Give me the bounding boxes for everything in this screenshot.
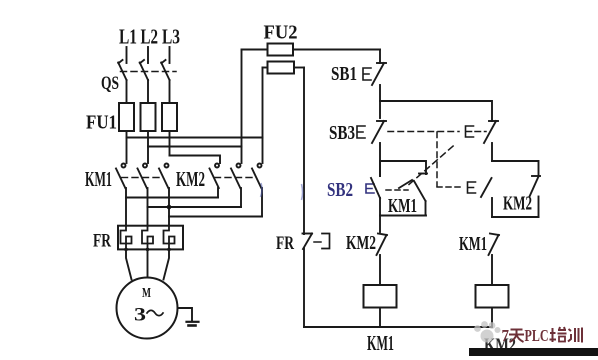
logo paw icon: [474, 321, 500, 342]
contactor KM1 interlock NC contact: [489, 234, 500, 286]
relay FR heater 2: [142, 226, 153, 250]
logo text 7 PLC: [502, 326, 549, 345]
motor M circle: [117, 278, 178, 339]
fuse FU2a: [242, 44, 381, 56]
svg-text:L3: L3: [162, 25, 180, 49]
button SB3 NO contact in branch 2: [481, 178, 492, 217]
wire FU2b tap down to KM2 right contact: [262, 68, 264, 164]
wire bus phase1 to KM2 right: [127, 137, 263, 139]
button SB3 NC contact: [372, 121, 386, 176]
switch QS pole 2: [140, 60, 148, 103]
linkage crossing diagonal dashed: [409, 144, 456, 185]
svg-text:KM2: KM2: [346, 232, 376, 254]
wire L2 drop: [147, 47, 149, 63]
logo glyph tian: [509, 330, 524, 343]
wire FR to motor W: [164, 249, 170, 279]
wire KM1 c1 down to FR: [125, 198, 127, 226]
linkage row2 dashed: [437, 186, 461, 188]
relay FR heater 3: [164, 226, 175, 250]
node FR out dot 2: [146, 248, 150, 252]
svg-text:SB2: SB2: [327, 179, 353, 201]
ground wire: [178, 308, 193, 322]
node FR out dot 3: [167, 248, 171, 252]
svg-text:FR: FR: [276, 233, 294, 254]
wire control return left: [303, 68, 305, 235]
svg-text:PLC: PLC: [525, 326, 549, 345]
svg-text:FU2: FU2: [264, 23, 298, 44]
fuse FU2b: [263, 62, 305, 74]
contactor KM2 interlock NC contact: [377, 234, 388, 286]
linkage row1 E symbol: [466, 126, 474, 137]
switch QS pole 1: [118, 60, 126, 103]
relay FR box: [118, 226, 183, 250]
contactor KM1 main contact 2: [138, 164, 148, 208]
svg-text:3: 3: [134, 305, 146, 326]
contactor KM1 linkage dashes: [122, 177, 164, 179]
wire bottom bus: [304, 326, 492, 328]
button SB2 NC contact in branch 2: [484, 121, 498, 161]
logo glyph xun: [568, 328, 582, 343]
linkage SB2 dashed to right: [386, 189, 408, 191]
linkage SB3 dashed row: [388, 131, 459, 133]
button SB2 NO contact: [371, 161, 380, 232]
contactor KM1 holding box: [380, 161, 427, 216]
svg-text:FU1: FU1: [86, 113, 117, 134]
svg-text:KM1: KM1: [85, 167, 112, 191]
svg-text:KM1: KM1: [367, 331, 394, 355]
svg-text:L2: L2: [141, 25, 159, 49]
wire L1 drop: [126, 47, 128, 63]
contactor KM1 main contact 1: [116, 164, 126, 198]
coil KM1: [364, 285, 397, 327]
contactor KM2 main contact 3: [252, 164, 262, 217]
wire FU2a tap down to KM2 mid contact: [241, 50, 243, 164]
wire H2 joins KM1 c2 and KM2 c2: [148, 206, 242, 208]
button SB1 NC contact: [372, 63, 386, 118]
svg-text:SB1: SB1: [331, 63, 357, 85]
watermark blue traces: [261, 183, 303, 200]
wire FR to motor V: [147, 249, 149, 277]
svg-text:M: M: [142, 286, 151, 301]
node FR out dot 1: [124, 248, 128, 252]
logo glyph pei: [550, 327, 567, 342]
wire bus phase3 to KM2 left: [170, 156, 221, 164]
contactor KM2 holding box: [492, 161, 540, 217]
button SB1 actuator E: [363, 68, 371, 80]
wire H1 joins KM1 c1 and KM2 c1: [126, 197, 218, 199]
switch QS pole 3: [161, 60, 169, 103]
coil KM2: [476, 285, 509, 327]
svg-text:7: 7: [502, 326, 510, 345]
wire bus phase2 to KM2 mid: [148, 146, 242, 148]
svg-text:L1: L1: [119, 25, 137, 49]
contactor KM2 main contact 2: [231, 164, 241, 208]
node branch split: [380, 101, 492, 121]
wire L3 drop: [169, 47, 171, 63]
linkage vertical dashed: [436, 132, 438, 186]
logo underline bar: [469, 348, 598, 356]
contactor KM2 linkage dashes: [215, 177, 257, 179]
motor tilde: [147, 310, 163, 315]
svg-text:KM1: KM1: [459, 233, 487, 255]
wire H3 joins KM1 c3 and KM2 c3: [169, 216, 262, 218]
wire FR to motor U: [126, 249, 132, 279]
relay FR trip bracket: [314, 234, 330, 249]
svg-text:KM1: KM1: [388, 195, 417, 217]
linkage row1 dash to contact: [475, 131, 486, 133]
relay FR NC contact: [303, 234, 313, 328]
fuse FU1 pole 1: [119, 103, 134, 163]
svg-text:FR: FR: [93, 231, 111, 252]
svg-text:KM2: KM2: [503, 193, 532, 215]
svg-text:SB3: SB3: [329, 122, 355, 144]
ground bars: [187, 321, 199, 323]
button SB3 actuator E: [357, 126, 365, 138]
svg-text:KM2: KM2: [176, 167, 205, 191]
button SB2 actuator E: [366, 184, 374, 193]
contactor KM1 main contact 3: [159, 164, 169, 226]
wire top feed to SB1: [379, 50, 381, 64]
switch QS linkage dashes: [121, 71, 177, 73]
fuse FU1 pole 2: [141, 103, 156, 163]
wire KM1 c2 down to FR: [147, 207, 149, 226]
svg-text:QS: QS: [101, 73, 119, 94]
contactor KM2 main contact 1: [210, 164, 220, 198]
node junction dot: [167, 205, 172, 210]
fuse FU1 pole 3: [162, 103, 177, 156]
linkage row2 E symbol: [468, 182, 476, 193]
relay FR heater 1: [121, 226, 132, 250]
